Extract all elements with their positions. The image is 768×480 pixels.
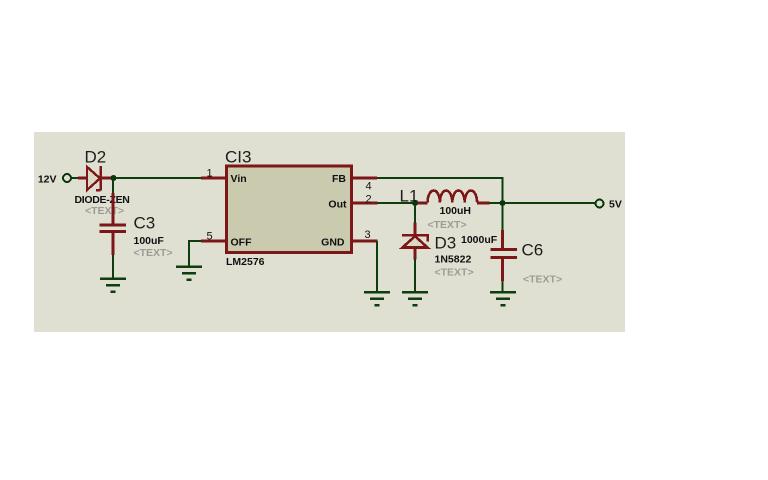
ground under C6 — [490, 291, 516, 307]
wire D3 to ground — [414, 259, 416, 292]
svg-text:4: 4 — [366, 181, 372, 193]
wire switch node down to D3 — [414, 205, 416, 225]
wire pin 5 to ground — [189, 241, 202, 266]
svg-text:D2: D2 — [85, 148, 107, 167]
pin 1 stub (Vin) — [201, 168, 226, 180]
terminal 12V input — [38, 174, 71, 186]
ground under OFF pin — [176, 266, 202, 282]
pin 4 stub (FB) — [352, 178, 377, 193]
svg-text:12V: 12V — [38, 174, 57, 186]
svg-text:<TEXT>: <TEXT> — [435, 267, 474, 279]
svg-text:CI3: CI3 — [225, 148, 251, 167]
svg-text:100uH: 100uH — [440, 205, 472, 217]
wire L1 to output node — [489, 202, 500, 204]
svg-text:<TEXT>: <TEXT> — [428, 219, 467, 231]
node junction at D2 cathode / C3 / pin1 net — [111, 175, 117, 181]
svg-text:1000uF: 1000uF — [461, 234, 498, 246]
svg-text:L1: L1 — [400, 187, 419, 206]
svg-text:5V: 5V — [609, 199, 622, 211]
svg-text:2: 2 — [366, 193, 372, 205]
wire output node to 5V terminal — [505, 202, 596, 204]
terminal 5V output — [596, 199, 622, 211]
svg-text:5: 5 — [207, 231, 213, 243]
svg-text:OFF: OFF — [231, 236, 253, 248]
capacitor C6 1000uF — [461, 230, 562, 286]
svg-text:Vin: Vin — [231, 173, 247, 185]
capacitor C3 100uF — [100, 193, 173, 259]
svg-text:LM2576: LM2576 — [226, 256, 265, 268]
svg-text:1: 1 — [207, 168, 213, 180]
wire 12V terminal to D2 anode — [72, 177, 80, 179]
svg-text:D3: D3 — [435, 234, 457, 253]
wire C3 to ground — [112, 255, 114, 278]
wire junction down to C3 — [112, 180, 114, 194]
diode D3 (schottky 1N5822) — [402, 223, 474, 279]
pin 3 stub (GND) — [352, 229, 378, 241]
svg-text:<TEXT>: <TEXT> — [134, 247, 173, 259]
ground under C3 — [100, 278, 126, 294]
node junction switch node (D3 / L1) — [412, 200, 418, 206]
inductor L1 100uH — [400, 187, 490, 232]
wire output node down to C6 — [502, 205, 504, 231]
svg-text:<TEXT>: <TEXT> — [85, 205, 124, 217]
svg-text:100uF: 100uF — [134, 235, 165, 247]
wire C6 to ground — [502, 281, 504, 292]
node junction output node (FB / C6 / 5V) — [500, 200, 506, 206]
ground under GND pin — [364, 291, 390, 307]
wire FB to output node — [377, 178, 503, 203]
svg-text:1N5822: 1N5822 — [435, 254, 472, 266]
svg-text:C3: C3 — [134, 214, 156, 233]
svg-text:C6: C6 — [522, 241, 544, 260]
wire junction to pin 1 — [116, 177, 202, 179]
svg-text:GND: GND — [321, 236, 345, 248]
wire GND pin to ground — [376, 241, 378, 292]
schematic canvas sheet — [34, 132, 625, 332]
op-amp U1 : regulator IC CI3 LM2576 body — [225, 148, 352, 269]
pin 5 stub (OFF) — [201, 231, 226, 243]
svg-text:FB: FB — [332, 173, 346, 185]
diode D2 (zener DIODE-ZEN) — [75, 148, 130, 218]
ground under D3 — [402, 291, 428, 307]
pin 2 stub (Out) — [352, 193, 378, 205]
svg-text:Out: Out — [328, 199, 347, 211]
svg-text:<TEXT>: <TEXT> — [523, 274, 562, 286]
wire Out pin to switch node — [378, 202, 414, 204]
svg-text:3: 3 — [365, 229, 371, 241]
